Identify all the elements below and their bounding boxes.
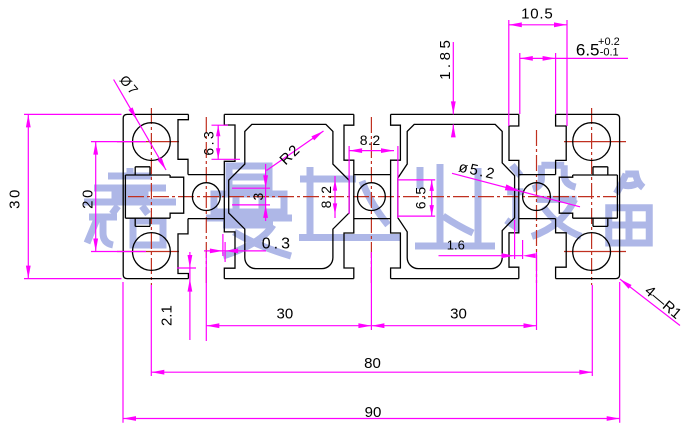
watermark character she [506,165,581,236]
centerline vertical left holes [150,108,152,285]
dimension 10.5 top slot recess width [508,20,510,126]
centerline vertical center slot [370,117,372,283]
dimension 8.2 bulge wall height rotated [334,176,336,218]
watermark character bei [609,174,650,243]
left slot floors [188,175,224,219]
right block bottom notch [593,218,608,226]
centerline vertical right slot [536,130,538,283]
dimension 80 hole spacing [150,285,152,376]
dimension 6.3 slot recess depth [212,124,229,126]
watermark character man [206,166,292,256]
bottom-left slot left wall [178,219,188,279]
leader 4-R1 corner radius [620,279,680,326]
dimension 2.1 bottom lip height [177,267,196,269]
left end block outer edge [123,114,188,278]
svg-text:30: 30 [277,306,294,323]
right block top notch [593,167,608,175]
corner hole 3 diameter 7 [573,123,611,161]
dimension 30 slot spacing left [205,252,207,341]
dimension 8.2 web span [348,146,350,214]
left block mid channel [125,175,170,218]
right slot left wall full [509,114,519,278]
svg-text:80: 80 [364,355,381,372]
dimension 3 mid web thickness [232,187,270,189]
dimension 0.3 slot wall offset [204,250,266,252]
right cavity [398,124,515,268]
dimension 6.5 slot opening with tolerance [520,57,628,59]
svg-text:8.2: 8.2 [360,132,381,148]
svg-text:3: 3 [250,192,266,200]
bottom-right slot right wall [556,219,567,279]
centerline horizontal middle [128,196,616,198]
right block mid channel [573,175,618,218]
watermark character ye [415,164,495,246]
top-right slot right wall [556,114,567,174]
leader diameter 5.2 center holes [452,173,580,207]
svg-text:20: 20 [80,187,97,209]
leader diameter 7 corner hole [114,80,166,171]
centerline vertical left slot [205,117,207,283]
corner hole 1 diameter 7 [133,123,171,161]
left slot right wall full [224,114,235,278]
dimension 90 overall width [122,282,124,423]
svg-text:6.3: 6.3 [201,129,217,156]
watermark character gong [299,167,401,238]
center-left block top surface [224,113,353,115]
corner hole 2 diameter 7 [133,233,171,271]
svg-text:0.3: 0.3 [262,236,293,253]
dimension 1.85 top plate thickness [452,42,454,114]
svg-text:-0.1: -0.1 [600,47,619,59]
right slot floors [519,175,556,219]
svg-text:30: 30 [450,306,467,323]
svg-text:2.1: 2.1 [159,305,176,326]
svg-text:8.2: 8.2 [318,184,334,208]
center hole 2 diameter 5.2 [358,183,386,211]
right block mid tab [559,175,572,218]
corner hole 4 diameter 7 [573,233,611,271]
center-right block bottom surface [391,278,519,280]
center hole 1 diameter 5.2 [192,183,220,211]
svg-text:10.5: 10.5 [521,6,553,23]
svg-text:6.5: 6.5 [413,185,429,209]
dimension 6.5 cavity bulge height [398,179,435,181]
left block top notch [135,167,150,175]
centerline bottom-left hole horizontal [117,251,179,253]
watermark character jia [84,168,176,245]
dimension 30 overall height [24,113,122,115]
svg-text:90: 90 [365,404,382,421]
centerline bottom-right hole horizontal [564,251,626,253]
center-right block top surface [391,113,519,115]
svg-text:1.85: 1.85 [437,37,454,80]
left block bottom notch [135,218,150,226]
left cavity [229,124,349,268]
center slot right wall full [391,114,401,278]
svg-text:6.5: 6.5 [576,40,600,59]
top-left slot left wall [178,114,188,174]
center slot floors [354,175,391,219]
center hole 3 diameter 5.2 [523,183,551,211]
left block mid tab [170,175,184,218]
center slot left wall full [344,114,354,278]
svg-text:30: 30 [7,187,24,209]
dimension 20 hole spacing vertical [91,141,146,143]
svg-text:1.6: 1.6 [447,238,465,253]
dimension 1.6 web gap [439,255,524,257]
center-left block bottom surface [224,278,353,280]
centerline top-left hole horizontal [117,141,179,143]
leader R2 cavity corner radius [267,131,324,171]
centerline vertical right holes [591,108,593,285]
right end block outer edge [556,114,620,278]
centerline top-right hole horizontal [564,141,626,143]
